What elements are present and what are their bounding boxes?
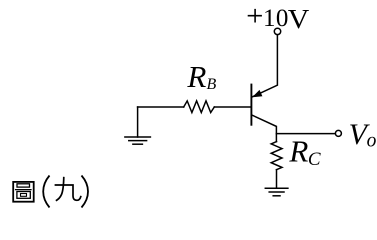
svg-text:C: C — [308, 149, 321, 170]
svg-text:B: B — [207, 76, 217, 93]
svg-text:R: R — [288, 135, 308, 169]
svg-text:10: 10 — [263, 5, 289, 32]
svg-text:o: o — [367, 131, 377, 152]
svg-text:V: V — [288, 4, 310, 34]
svg-text:R: R — [186, 60, 206, 94]
